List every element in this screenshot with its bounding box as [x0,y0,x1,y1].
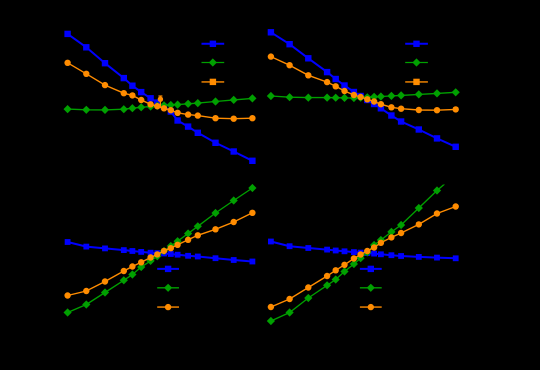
subplot top-right: green diamond markers [267,88,460,102]
subplot bottom-left: orange circle markers [64,210,255,299]
subplot top-left: green diamond markers [64,94,257,114]
subplot top-left: green series line [68,98,253,110]
subplot bottom-right: orange circle markers [268,203,459,310]
legend entry blue: sample line + square marker [157,266,179,272]
legend entry green: sample line + diamond marker [360,284,382,292]
legend entry green: sample line + diamond marker [157,284,179,292]
subplot bottom-right: blue square markers [268,239,459,262]
subplot bottom-left: green series line [68,188,253,313]
subplot bottom-left: green diamond markers [64,184,257,317]
subplot bottom-right: orange series line [271,207,456,308]
subplot top-left: blue square markers [64,31,255,164]
legend entry blue: sample line + square marker [405,41,428,47]
subplot bottom-right: green diamond markers [267,186,441,325]
legend entry orange: sample line + square marker [405,79,428,85]
subplot top-right: orange circle markers [268,53,459,113]
subplot bottom-left: orange series line [68,213,253,296]
subplot top-left: blue series line [68,34,253,161]
subplot bottom-left: blue series line [68,242,253,262]
legend entry orange: sample line + circle marker [157,304,179,310]
subplot top-right: blue series line [271,32,456,147]
subplot bottom-left: blue square markers [65,239,256,264]
subplot bottom-right: green series line [271,175,456,322]
legend entry green: sample line + diamond marker [405,58,428,66]
legend entry green: sample line + diamond marker [202,58,225,66]
subplot top-right: orange series line [271,57,456,111]
subplot top-left: orange series line [68,63,253,119]
subplot top-right: green series line [271,92,456,98]
subplot top-right: blue square markers [268,29,459,150]
legend entry blue: sample line + square marker [202,41,225,47]
legend entry orange: sample line + square marker [202,79,225,85]
subplot top-left: orange circle markers [64,60,255,122]
legend entry blue: sample line + square marker [360,266,382,272]
subplot bottom-right: blue series line [271,242,456,259]
legend entry orange: sample line + circle marker [360,304,382,310]
subplot top-left: orange errorbar at x=160 [158,96,163,108]
